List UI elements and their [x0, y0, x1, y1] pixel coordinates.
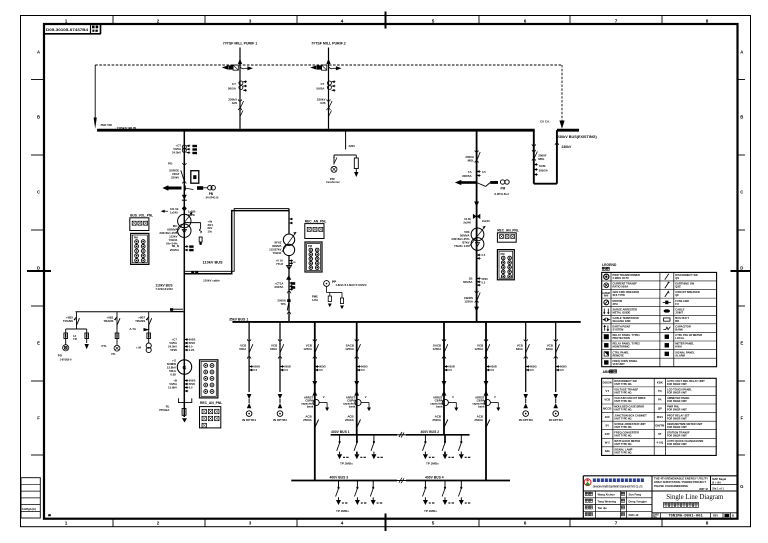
- svg-text:7#TSF MILL PURIF 1: 7#TSF MILL PURIF 1: [223, 42, 257, 46]
- svg-text:300/5A: 300/5A: [539, 168, 548, 172]
- svg-text:600/5: 600/5: [284, 364, 291, 368]
- svg-text:TD: TD: [658, 389, 662, 393]
- svg-text:0.5: 0.5: [490, 368, 494, 372]
- svg-text:SEALING END: SEALING END: [613, 319, 631, 323]
- svg-text:0.5: 0.5: [189, 385, 193, 389]
- svg-text:7: 7: [615, 521, 618, 526]
- svg-text:UNIT TYPE NO.: UNIT TYPE NO.: [614, 417, 632, 420]
- svg-text:7T1/2: 7T1/2: [276, 262, 284, 266]
- svg-text:630A: 630A: [516, 347, 524, 351]
- svg-text:QS: QS: [675, 276, 679, 280]
- svg-text:Silk: Silk: [605, 449, 610, 453]
- svg-text:30/1: 30/1: [208, 223, 214, 227]
- svg-text:8-0P41-B+2: 8-0P41-B+2: [495, 192, 510, 196]
- svg-text:1: 1: [65, 19, 68, 24]
- svg-text:0.2: 0.2: [482, 281, 486, 285]
- svg-text:+.M: +.M: [136, 345, 142, 349]
- svg-text:M/21: M/21: [657, 415, 664, 419]
- svg-text:600/5: 600/5: [490, 364, 497, 368]
- svg-text:FOR SWGR UNIT: FOR SWGR UNIT: [667, 417, 687, 420]
- svg-text:SV: SV: [605, 423, 609, 427]
- svg-text:TP JMDs: TP JMDs: [424, 509, 437, 513]
- svg-text:BD: BD: [675, 319, 679, 323]
- svg-text:0.5: 0.5: [189, 344, 193, 348]
- svg-text:C: C: [740, 190, 743, 195]
- svg-text:2-WDG OLTC: 2-WDG OLTC: [613, 276, 630, 280]
- svg-text:TRANS: TRANS: [135, 319, 145, 323]
- svg-text:110kV cable: 110kV cable: [203, 279, 220, 283]
- svg-text:2500A: 2500A: [303, 418, 313, 422]
- svg-text:600/5A: 600/5A: [463, 280, 473, 284]
- svg-text:1-m: 1-m: [291, 260, 296, 264]
- svg-text:1250A: 1250A: [433, 347, 443, 351]
- svg-text:PPGBA: PPGBA: [159, 408, 169, 412]
- svg-text:2: 2: [157, 521, 160, 526]
- svg-text:V: V: [323, 395, 325, 399]
- svg-text:2500A: 2500A: [345, 418, 355, 422]
- svg-text:RATIO 50/5A: RATIO 50/5A: [613, 285, 629, 289]
- svg-text:CU CA.: CU CA.: [540, 119, 550, 123]
- svg-text:10s: 10s: [208, 230, 213, 234]
- svg-text:110kV BUS: 110kV BUS: [156, 283, 174, 287]
- svg-text:PM: PM: [501, 186, 506, 190]
- svg-text:GIS: GIS: [232, 101, 237, 105]
- svg-text:PHASE II ENGINEERING: PHASE II ENGINEERING: [654, 484, 688, 488]
- svg-text:SF6 TYPE: SF6 TYPE: [613, 293, 626, 297]
- svg-text:600/5: 600/5: [189, 337, 196, 341]
- svg-text:B: B: [37, 115, 40, 120]
- svg-text:600/5: 600/5: [253, 364, 260, 368]
- svg-text:1: 1: [65, 521, 68, 526]
- svg-text:bank: bank: [478, 404, 485, 408]
- svg-text:D: D: [37, 266, 40, 271]
- svg-text:C: C: [37, 190, 40, 195]
- svg-text:FOR SWGR UNIT: FOR SWGR UNIT: [667, 443, 687, 446]
- svg-text:FOR SWGR UNIT: FOR SWGR UNIT: [667, 392, 687, 395]
- svg-text:1250A: 1250A: [345, 347, 355, 351]
- svg-text:110kV BUS: 110kV BUS: [203, 261, 224, 265]
- svg-text:230kV SUBSTATION / POWER PROJE: 230kV SUBSTATION / POWER PROJECT: [654, 480, 706, 484]
- svg-text:7SN1MG-D001-001: 7SN1MG-D001-001: [668, 515, 703, 519]
- svg-text:600/5A: 600/5A: [275, 285, 284, 289]
- svg-text:THE 4TH RENEWABLE ENERGY UTILI: THE 4TH RENEWABLE ENERGY UTILITY: [654, 477, 708, 481]
- svg-text:5P20: 5P20: [482, 277, 489, 281]
- svg-text:QP: QP: [658, 406, 662, 410]
- svg-text:0.5: 0.5: [482, 170, 486, 174]
- svg-text:7: 7: [615, 19, 618, 24]
- svg-text:FOR SWGR UNIT: FOR SWGR UNIT: [667, 434, 687, 437]
- svg-text:A.TA: A.TA: [129, 327, 137, 331]
- svg-text:F: F: [37, 416, 40, 421]
- svg-text:PROTECTION: PROTECTION: [613, 336, 630, 340]
- svg-text:REV: REV: [713, 515, 718, 518]
- svg-text:600/5: 600/5: [189, 378, 196, 382]
- svg-text:TA/M: TA/M: [539, 164, 546, 168]
- svg-text:630A: 630A: [270, 347, 278, 351]
- svg-text:F: F: [740, 416, 743, 421]
- svg-text:transformer: transformer: [326, 181, 340, 184]
- svg-text:VCB: VCB: [604, 398, 610, 402]
- svg-text:TP JMDs: TP JMDs: [426, 462, 439, 466]
- svg-text:METAL OXIDE: METAL OXIDE: [613, 310, 631, 314]
- svg-text:101.5k: 101.5k: [170, 207, 179, 211]
- svg-text:LEGEND: LEGEND: [602, 263, 617, 267]
- svg-text:V: V: [494, 395, 496, 399]
- svg-text:220kV: 220kV: [171, 176, 179, 180]
- svg-text:B: B: [732, 514, 734, 518]
- svg-text:B + 9H: B + 9H: [712, 480, 720, 484]
- svg-text:0.5: 0.5: [448, 368, 452, 372]
- svg-text:0.5: 0.5: [482, 253, 486, 257]
- svg-text:0.85: 0.85: [170, 372, 176, 376]
- svg-text:5P20: 5P20: [189, 382, 196, 386]
- svg-text:200/5A: 200/5A: [170, 248, 179, 252]
- svg-text:630A: 630A: [239, 347, 247, 351]
- svg-text:Sht 1 of 1: Sht 1 of 1: [712, 486, 724, 490]
- svg-text:230kV BUS(EXISTING): 230kV BUS(EXISTING): [557, 135, 598, 139]
- svg-text:50/5A: 50/5A: [316, 87, 325, 91]
- svg-text:4TL: 4TL: [111, 352, 116, 356]
- svg-text:DS/GW: DS/GW: [603, 381, 613, 385]
- svg-text:UNIT TYPE NO.: UNIT TYPE NO.: [614, 434, 632, 437]
- svg-text:TP JMDs: TP JMDs: [336, 509, 349, 513]
- svg-text:G: G: [183, 365, 187, 371]
- svg-text:FOR SWGR UNIT: FOR SWGR UNIT: [667, 409, 687, 412]
- svg-text:h.MfgA(A): h.MfgA(A): [22, 507, 36, 511]
- svg-text:35kV BUS 1: 35kV BUS 1: [229, 317, 248, 321]
- svg-text:400V BUS 4: 400V BUS 4: [425, 476, 444, 480]
- svg-text:400V BUS 1: 400V BUS 1: [331, 430, 350, 434]
- svg-text:8: 8: [706, 521, 709, 526]
- svg-text:MONITORING: MONITORING: [613, 345, 630, 349]
- svg-text:MDL: MDL: [468, 159, 475, 163]
- svg-text:VT: VT: [605, 389, 609, 393]
- svg-text:IN DPTR4: IN DPTR4: [549, 418, 563, 422]
- svg-text:400V BUS 2: 400V BUS 2: [421, 430, 440, 434]
- svg-text:+CT1A: +CT1A: [275, 282, 284, 286]
- svg-text:VFD UNIT: VFD UNIT: [613, 362, 626, 366]
- svg-text:50/5A: 50/5A: [228, 87, 237, 91]
- svg-text:YNd11: YNd11: [273, 251, 282, 255]
- svg-text:630A: 630A: [546, 347, 554, 351]
- svg-text:1/2A: 1/2A: [312, 298, 318, 302]
- svg-text:FOR SWGR UNIT: FOR SWGR UNIT: [667, 426, 687, 429]
- svg-text:IN DPTR1: IN DPTR1: [242, 418, 256, 422]
- svg-text:5P20: 5P20: [170, 348, 177, 352]
- svg-text:TR: TR: [73, 337, 77, 341]
- svg-text:JOINT: JOINT: [675, 310, 683, 314]
- svg-text:600/5: 600/5: [530, 364, 537, 368]
- svg-text:24-0P41-B: 24-0P41-B: [206, 196, 219, 200]
- svg-text:+0k: +0k: [208, 219, 213, 223]
- svg-text:8: 8: [706, 19, 709, 24]
- svg-text:1x240: 1x240: [170, 211, 178, 215]
- svg-text:13.8kV: 13.8kV: [168, 386, 177, 390]
- svg-text:TRANS: TRANS: [103, 319, 113, 323]
- svg-text:ALARM: ALARM: [675, 353, 685, 357]
- svg-text:1250A: 1250A: [475, 347, 485, 351]
- svg-text:D: D: [740, 266, 743, 271]
- svg-text:BANK: BANK: [675, 328, 683, 332]
- svg-text:1250A: 1250A: [464, 300, 474, 304]
- svg-text:1-97(9)0-9: 1-97(9)0-9: [60, 357, 72, 361]
- svg-text:DM/TM: DM/TM: [655, 423, 665, 427]
- svg-text:UNIT 4#: UNIT 4#: [699, 488, 709, 491]
- svg-text:QF: QF: [675, 293, 679, 297]
- svg-text:UNIT TYPE NO.: UNIT TYPE NO.: [614, 452, 632, 455]
- svg-text:UNIT TYPE NO.: UNIT TYPE NO.: [614, 392, 632, 395]
- svg-text:REC_AN_PNL: REC_AN_PNL: [305, 219, 327, 223]
- svg-text:0.5: 0.5: [284, 368, 288, 372]
- svg-text:ZXF: ZXF: [605, 432, 611, 436]
- svg-text:2500A: 2500A: [474, 418, 484, 422]
- svg-text:300/5A: 300/5A: [462, 174, 472, 178]
- svg-text:5: 5: [432, 521, 435, 526]
- svg-text:UNIT TYPE NO.: UNIT TYPE NO.: [614, 443, 632, 446]
- svg-text:5: 5: [432, 19, 435, 24]
- svg-text:UNIT TYPE NO.: UNIT TYPE NO.: [614, 383, 632, 386]
- svg-text:1250A: 1250A: [303, 347, 313, 351]
- svg-text:3: 3: [249, 19, 252, 24]
- svg-text:MCCB: MCCB: [603, 406, 611, 410]
- svg-text:2x240: 2x240: [463, 220, 471, 224]
- svg-text:Wang Xichun: Wang Xichun: [598, 493, 616, 497]
- svg-text:A: A: [740, 50, 743, 55]
- svg-text:2500A: 2500A: [432, 418, 442, 422]
- svg-text:PB: PB: [209, 192, 214, 196]
- svg-text:400V BUS 3: 400V BUS 3: [330, 476, 349, 480]
- svg-text:4: 4: [341, 521, 344, 526]
- svg-text:REMOTE: REMOTE: [613, 353, 625, 357]
- svg-text:bank: bank: [436, 404, 443, 408]
- svg-text:IN DPTR3: IN DPTR3: [519, 418, 533, 422]
- svg-text:0.5: 0.5: [530, 368, 534, 372]
- svg-text:FOR SWGR UNIT: FOR SWGR UNIT: [667, 400, 687, 403]
- svg-text:6: 6: [524, 521, 527, 526]
- svg-text:WHI: WHI: [604, 295, 609, 297]
- svg-text:UNIT TYPE NO.: UNIT TYPE NO.: [614, 400, 632, 403]
- svg-text:PTL: PTL: [101, 344, 107, 348]
- svg-text:230kV: 230kV: [562, 145, 572, 149]
- svg-text:0.5: 0.5: [361, 368, 365, 372]
- svg-text:YJV22-64/110: YJV22-64/110: [156, 287, 174, 291]
- svg-text:SHANGHAI POWER EQUIPMENT DESIG: SHANGHAI POWER EQUIPMENT DESIGN INSTITUT…: [593, 484, 643, 488]
- svg-text:600/5: 600/5: [448, 364, 455, 368]
- svg-text:24.5kV: 24.5kV: [172, 151, 181, 155]
- svg-text:2200: 2200: [349, 144, 356, 148]
- svg-text:CT: CT: [232, 82, 236, 86]
- svg-text:D05-30105-07437B4: D05-30105-07437B4: [46, 28, 88, 32]
- svg-text:600/5: 600/5: [560, 364, 567, 368]
- svg-text:LOCAL: LOCAL: [675, 336, 684, 340]
- svg-text:5P20: 5P20: [189, 341, 196, 345]
- svg-text:2: 2: [157, 19, 160, 24]
- svg-text:REC_AN_PNL: REC_AN_PNL: [497, 229, 519, 233]
- svg-text:E: E: [37, 341, 40, 346]
- svg-text:7#TSF MILL PURIF 2: 7#TSF MILL PURIF 2: [311, 42, 345, 46]
- svg-text:bank: bank: [349, 404, 356, 408]
- svg-text:YNd11 14%: YNd11 14%: [454, 244, 470, 248]
- svg-text:CT: CT: [320, 82, 324, 86]
- svg-text:3PH: 3PH: [613, 302, 618, 306]
- svg-text:MAP Bagat: MAP Bagat: [712, 477, 726, 481]
- svg-text:REC_AN_PNL: REC_AN_PNL: [200, 401, 222, 405]
- svg-text:IN DPTR2: IN DPTR2: [273, 418, 287, 422]
- svg-text:PA: PA: [658, 398, 662, 402]
- svg-text:CIRCUIT BREAKER: CIRCUIT BREAKER: [675, 290, 700, 294]
- svg-text:FU: FU: [675, 302, 679, 306]
- svg-text:A: A: [37, 50, 40, 55]
- svg-text:600/5: 600/5: [361, 364, 368, 368]
- svg-text:0.5: 0.5: [560, 368, 564, 372]
- svg-text:B: B: [740, 115, 743, 120]
- svg-text:UNIT TYPE NO.: UNIT TYPE NO.: [614, 426, 632, 429]
- svg-text:Tang Weiming: Tang Weiming: [598, 499, 617, 503]
- svg-text:ST: ST: [658, 432, 662, 436]
- svg-text:4-AQ: 4-AQ: [657, 441, 664, 445]
- svg-text:6: 6: [524, 19, 527, 24]
- svg-text:TP JMDs: TP JMDs: [340, 462, 353, 466]
- svg-text:Single Line Diagram: Single Line Diagram: [666, 494, 724, 501]
- svg-text:E: E: [740, 341, 743, 346]
- svg-text:TPA: TPA: [280, 302, 285, 306]
- svg-text:W-2: W-2: [605, 441, 610, 445]
- svg-text:2021.12: 2021.12: [629, 513, 639, 517]
- svg-text:Tan Jie: Tan Jie: [598, 506, 608, 510]
- svg-text:Deng Yongjun: Deng Yongjun: [629, 499, 648, 503]
- svg-text:4.8kV/√3 4.8kV/√3 100V/3: 4.8kV/√3 4.8kV/√3 100V/3: [336, 283, 367, 287]
- svg-text:FOR SWGR UNIT: FOR SWGR UNIT: [667, 383, 687, 386]
- svg-text:3: 3: [249, 521, 252, 526]
- svg-text:BUS_VOL_PNL: BUS_VOL_PNL: [130, 214, 153, 218]
- svg-text:PER 500: PER 500: [101, 123, 113, 127]
- svg-text:600/5: 600/5: [319, 364, 326, 368]
- svg-text:0.5: 0.5: [319, 368, 323, 372]
- svg-text:KWH: KWH: [675, 345, 681, 349]
- svg-text:SYSTEM: SYSTEM: [613, 328, 625, 332]
- svg-text:No.: No.: [653, 517, 657, 519]
- svg-text:0.5: 0.5: [253, 368, 257, 372]
- svg-text:2x240: 2x240: [482, 219, 490, 223]
- svg-text:GIS: GIS: [320, 101, 325, 105]
- svg-text:KBK: KBK: [657, 381, 663, 385]
- svg-text:QSE: QSE: [675, 285, 681, 289]
- svg-text:UNIT TYPE NO.: UNIT TYPE NO.: [614, 409, 632, 412]
- svg-text:MDL: MDL: [538, 157, 545, 161]
- svg-text:V: V: [365, 395, 367, 399]
- svg-text:6kV: 6kV: [208, 226, 213, 230]
- svg-text:TRANS: TRANS: [63, 319, 73, 323]
- svg-text:4: 4: [341, 19, 344, 24]
- svg-text:0.2S: 0.2S: [189, 348, 195, 352]
- svg-text:bank: bank: [307, 404, 314, 408]
- svg-text:JXC: JXC: [605, 415, 610, 419]
- svg-text:V: V: [452, 395, 454, 399]
- svg-text:Sun Fang: Sun Fang: [629, 493, 642, 497]
